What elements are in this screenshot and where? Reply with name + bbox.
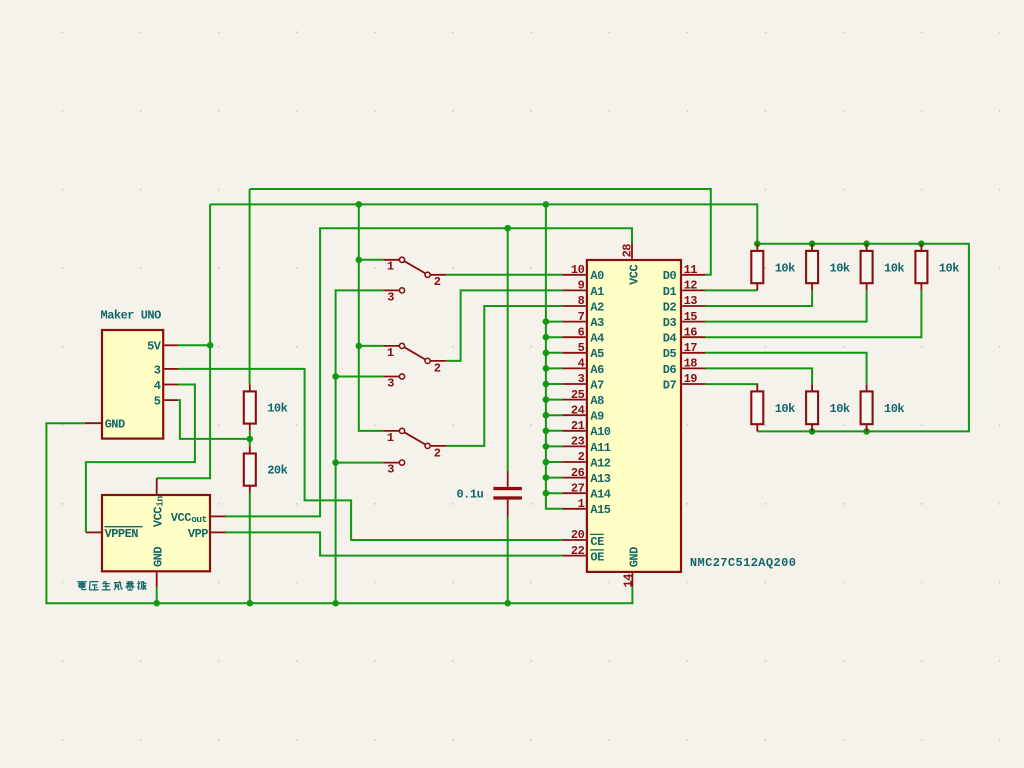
svg-text:20k: 20k (267, 464, 287, 478)
wire SW2 pin3 (336, 376, 384, 378)
pin 12 D1 of U1 (682, 289, 705, 291)
svg-text:A4: A4 (590, 332, 604, 346)
wire drop to divider resistor R8 top (249, 189, 251, 384)
wire VPP to OE (226, 532, 563, 555)
svg-text:D0: D0 (663, 269, 677, 283)
wire bus to A3 (546, 321, 562, 323)
pin VPP (right) (211, 531, 226, 533)
pin 9 A1 of U1 (562, 289, 586, 291)
svg-text:2: 2 (578, 450, 585, 464)
wire D5 to R7 (705, 353, 866, 384)
pin 21 A10 of U1 (562, 430, 586, 432)
capacitor C1 0.1u (507, 471, 509, 487)
svg-text:2: 2 (434, 275, 441, 289)
wire R2 to D2 (705, 290, 812, 306)
svg-text:A12: A12 (590, 456, 610, 470)
resistor R8 10k (divider top) (249, 384, 251, 431)
junction bus at A9 (543, 412, 550, 419)
svg-text:A6: A6 (590, 363, 604, 377)
svg-text:A5: A5 (590, 347, 604, 361)
wire bus to A13 (546, 477, 562, 479)
svg-text:D2: D2 (663, 300, 677, 314)
junction bus at A8 (543, 396, 550, 403)
pin 20 CE of U1 (562, 539, 586, 541)
svg-text:11: 11 (684, 263, 698, 277)
pin 26 A13 of U1 (562, 477, 586, 479)
svg-text:VCC: VCC (627, 264, 641, 284)
overline VPPEN (105, 526, 143, 528)
wire bus to A10 (546, 430, 562, 432)
resistor R2 10k pull-up D1 (811, 244, 813, 291)
svg-text:2: 2 (434, 361, 441, 375)
svg-text:GND: GND (151, 547, 165, 567)
junction bus at A13 (543, 474, 550, 481)
pin 8 A2 of U1 (562, 305, 586, 307)
svg-text:10k: 10k (775, 262, 795, 276)
wire R1 to D1 (705, 289, 757, 291)
junction bus at A12 (543, 459, 550, 466)
svg-text:D7: D7 (663, 378, 677, 392)
pin 5 A5 of U1 (562, 352, 586, 354)
junction bus at A7 (543, 381, 550, 388)
svg-text:D6: D6 (663, 363, 677, 377)
wire bus to A14 (546, 492, 562, 494)
wire 5V pin to riser (178, 344, 210, 346)
wire 5V riser to VCCin (157, 204, 210, 478)
wire bus to A11 (546, 445, 562, 447)
module U3 voltage generator board body (102, 495, 210, 571)
junction switch bus at rail (332, 600, 339, 607)
svg-text:27: 27 (571, 481, 585, 495)
svg-text:25: 25 (571, 388, 585, 402)
IC U1 NMC27C512AQ200 body (587, 260, 681, 572)
wire Maker UNO pin3 to CE (178, 369, 562, 540)
pin 13 D2 of U1 (682, 305, 705, 307)
wire bus to A7 (546, 383, 562, 385)
pin 4 of Maker UNO (164, 384, 178, 386)
wire bus to A4 (546, 336, 562, 338)
pin 3 A7 of U1 (562, 383, 586, 385)
pin 16 D4 of U1 (682, 336, 705, 338)
pin 11 D0 of U1 (682, 274, 705, 276)
pin 2 A12 of U1 (562, 461, 586, 463)
wire SW2 pin1 (359, 345, 384, 347)
junction 5V pin (207, 342, 214, 349)
wire SW1 pin2 to A0 (446, 274, 562, 276)
wire D6 to R6 (705, 368, 812, 384)
pin 15 D3 of U1 (682, 321, 705, 323)
junction capacitor at VCC wire (504, 225, 511, 232)
svg-text:8: 8 (578, 294, 585, 308)
wire SW3 pin3 (336, 462, 384, 464)
junction capacitor at rail (504, 600, 511, 607)
svg-text:10k: 10k (267, 402, 287, 416)
wire D7 to R5 (705, 383, 757, 385)
svg-text:6: 6 (578, 325, 585, 339)
svg-text:10k: 10k (884, 262, 904, 276)
svg-text:26: 26 (571, 466, 585, 480)
junction SW1 pin1 (356, 257, 363, 264)
svg-text:GND: GND (105, 418, 125, 432)
pin 14 GND of U1 (631, 573, 633, 587)
pin 3 of Maker UNO (164, 368, 178, 370)
svg-text:A8: A8 (590, 394, 604, 408)
svg-text:10: 10 (571, 263, 585, 277)
pin 6 A4 of U1 (562, 336, 586, 338)
svg-text:4: 4 (154, 379, 161, 393)
svg-text:A2: A2 (590, 300, 604, 314)
svg-text:19: 19 (684, 372, 698, 386)
svg-text:1: 1 (387, 260, 394, 274)
wire bus to A12 (546, 461, 562, 463)
junction R7 at return rail (863, 428, 870, 435)
svg-text:NMC27C512AQ200: NMC27C512AQ200 (690, 556, 796, 570)
pin VPPEN (left) (86, 531, 101, 533)
wire pull-up bus and return (757, 244, 969, 432)
pin 5V of Maker UNO (164, 344, 178, 346)
svg-text:VPP: VPP (188, 527, 208, 541)
svg-text:A0: A0 (590, 269, 604, 283)
svg-text:3: 3 (387, 376, 394, 390)
wire 5V distribution rail (210, 204, 757, 243)
svg-text:A3: A3 (590, 316, 604, 330)
svg-text:2: 2 (434, 446, 441, 460)
resistor R5 10k pull-up D7 (756, 384, 758, 431)
wire Maker UNO pin5 to divider tap (178, 400, 250, 439)
svg-text:1: 1 (387, 431, 394, 445)
svg-text:22: 22 (571, 544, 585, 558)
pin VCCin (top) (156, 478, 158, 494)
wire SW3 pin2 to A2 (446, 306, 562, 446)
module U2 Maker UNO body (102, 330, 163, 439)
junction pull-up bus x=812.1 (809, 240, 816, 247)
wire A3-A14 tie-high bus (546, 204, 562, 508)
svg-text:A14: A14 (590, 488, 610, 502)
wire VCCout to IC VCC (226, 228, 632, 516)
junction bus at A11 (543, 443, 550, 450)
svg-text:3: 3 (154, 363, 161, 377)
svg-text:21: 21 (571, 419, 585, 433)
junction R9 at rail (247, 600, 254, 607)
wire switch pin3 bus to ground (336, 290, 384, 603)
svg-text:D1: D1 (663, 285, 677, 299)
pin 7 A3 of U1 (562, 321, 586, 323)
junction pull-up bus x=757.3 (754, 240, 761, 247)
pin 17 D5 of U1 (682, 352, 705, 354)
pin 23 A11 of U1 (562, 445, 586, 447)
svg-text:3: 3 (578, 372, 585, 386)
svg-text:A1: A1 (590, 285, 604, 299)
junction bus at A14 (543, 490, 550, 497)
svg-text:5: 5 (154, 395, 161, 409)
wire R9 bottom to ground rail (249, 493, 251, 603)
pin 24 A9 of U1 (562, 414, 586, 416)
svg-text:18: 18 (684, 357, 698, 371)
pin 28 VCC of U1 (631, 244, 633, 259)
svg-text:17: 17 (684, 341, 698, 355)
wire VCC top rail to D0 pullup net (250, 189, 711, 275)
svg-text:15: 15 (684, 310, 698, 324)
junction switch bus at 5V rail (356, 201, 363, 208)
svg-text:1: 1 (387, 346, 394, 360)
pin 27 A14 of U1 (562, 492, 586, 494)
svg-text:13: 13 (684, 294, 698, 308)
svg-text:OE: OE (590, 551, 604, 565)
svg-text:A10: A10 (590, 425, 610, 439)
junction SW2 pin1 (356, 343, 363, 350)
svg-text:7: 7 (578, 310, 585, 324)
wire capacitor bottom to ground rail (507, 517, 509, 603)
svg-text:A11: A11 (590, 441, 610, 455)
junction divider tap (247, 436, 254, 443)
pin GND (bottom) (156, 572, 158, 587)
junction SW2 pin3 (332, 373, 339, 380)
wire bus to A6 (546, 367, 562, 369)
resistor R6 10k pull-up D6 (811, 384, 813, 431)
switch SW3 (A2 select) (383, 430, 399, 432)
junction pull-up bus x=921.4 (918, 240, 925, 247)
svg-text:16: 16 (684, 325, 698, 339)
wire SW1 pin1 (359, 259, 384, 261)
junction bus at A4 (543, 334, 550, 341)
svg-text:D4: D4 (663, 332, 677, 346)
svg-text:4: 4 (578, 357, 585, 371)
svg-text:D3: D3 (663, 316, 677, 330)
svg-text:5: 5 (578, 341, 585, 355)
svg-text:GND: GND (628, 547, 642, 567)
svg-text:24: 24 (571, 403, 585, 417)
wire Maker UNO pin4 to VPPEN (86, 385, 195, 533)
svg-text:23: 23 (571, 435, 585, 449)
svg-text:20: 20 (571, 528, 585, 542)
wire bus to A9 (546, 414, 562, 416)
wire bus to A8 (546, 399, 562, 401)
svg-text:CE: CE (590, 535, 604, 549)
junction R6 at return rail (809, 428, 816, 435)
svg-text:10k: 10k (884, 402, 904, 416)
junction bus at A6 (543, 365, 550, 372)
svg-text:3: 3 (387, 463, 394, 477)
svg-text:5V: 5V (147, 340, 162, 354)
resistor R9 20k (divider bottom) (249, 446, 251, 493)
svg-text:A7: A7 (590, 378, 604, 392)
svg-text:10k: 10k (775, 402, 795, 416)
switch SW2 (A1 select) (383, 345, 399, 347)
svg-text:10k: 10k (830, 262, 850, 276)
pin 1 A15 of U1 (562, 508, 586, 510)
svg-text:28: 28 (621, 244, 635, 258)
pin 18 D6 of U1 (682, 367, 705, 369)
pin 5 of Maker UNO (164, 399, 178, 401)
svg-text:VPPEN: VPPEN (105, 527, 139, 541)
svg-text:3: 3 (387, 290, 394, 304)
switch SW1 (A0 select) (383, 259, 399, 261)
svg-text:A9: A9 (590, 410, 604, 424)
svg-text:Maker UNO: Maker UNO (101, 308, 162, 322)
svg-text:12: 12 (684, 279, 698, 293)
svg-text:10k: 10k (939, 262, 959, 276)
label 電圧生成基板 (vector strokes) (77, 581, 146, 590)
pin GND of Maker UNO (85, 422, 101, 424)
svg-text:A15: A15 (590, 503, 610, 517)
svg-text:D5: D5 (663, 347, 677, 361)
pin 19 D7 of U1 (682, 383, 705, 385)
svg-text:0.1u: 0.1u (456, 487, 483, 501)
svg-text:14: 14 (622, 574, 636, 588)
resistor R4 10k pull-up D3 (920, 244, 922, 291)
junction SW3 pin3 (332, 459, 339, 466)
junction bus at A10 (543, 428, 550, 435)
wire R3 to D3 (705, 290, 866, 321)
junction bus at A5 (543, 350, 550, 357)
pin VCCout (right) (211, 515, 226, 517)
junction board GND at rail (153, 600, 160, 607)
wire capacitor top lead net (507, 228, 509, 471)
pin 4 A6 of U1 (562, 367, 586, 369)
svg-text:9: 9 (578, 279, 585, 293)
svg-text:A13: A13 (590, 472, 610, 486)
wire divider tap R8-R9 (249, 431, 251, 447)
wire switch common bus from 5V (359, 204, 384, 431)
pin 10 A0 of U1 (562, 274, 586, 276)
junction pull-up bus x=866.6 (863, 240, 870, 247)
junction tie bus at 5V rail (543, 201, 550, 208)
pin 22 OE of U1 (562, 555, 586, 557)
wire board GND to rail (156, 587, 158, 603)
wire SW2 pin2 to A1 (446, 290, 562, 361)
wire bus to A5 (546, 352, 562, 354)
wire ground rail (46, 423, 632, 603)
resistor R1 10k pull-up D0 (756, 244, 758, 291)
svg-text:10k: 10k (830, 402, 850, 416)
resistor R3 10k pull-up D2 (866, 244, 868, 291)
svg-text:1: 1 (578, 497, 585, 511)
resistor R7 10k pull-up D5 (866, 384, 868, 431)
pin 25 A8 of U1 (562, 399, 586, 401)
wire R4 to D4 (705, 290, 921, 337)
junction bus at A3 (543, 318, 550, 325)
